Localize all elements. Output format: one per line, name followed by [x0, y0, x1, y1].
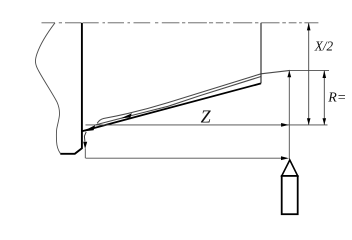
centerline (axis, dash-dot) [42, 22, 319, 24]
return path line to tool [86, 157, 287, 159]
right arrow to tool [281, 156, 289, 160]
retract line from corner [84, 132, 86, 142]
svg-text:R=: R= [327, 90, 346, 105]
up arrow at taper end level [287, 71, 291, 78]
R dimension line [323, 71, 325, 125]
R top arrow [323, 70, 327, 78]
wire: break (wavy) line left [35, 23, 60, 154]
Z dimension right arrow [281, 123, 289, 127]
X/2 bottom arrow [307, 118, 311, 125]
extension line vertical at tool tip [288, 71, 290, 159]
Z dimension line [86, 124, 328, 126]
workpiece right end face line [260, 23, 262, 84]
tool tip (triangle) [282, 160, 298, 176]
svg-text:X/2: X/2 [314, 39, 334, 54]
tool path middle line [96, 77, 262, 125]
feed direction arrow on middle line [121, 113, 132, 118]
X/2 dimension line [308, 23, 310, 124]
R bottom arrow [323, 118, 327, 125]
tool shank [282, 176, 298, 214]
taper surface (thick cut line) [82, 83, 261, 131]
extension line horizontal at taper end level [288, 69, 329, 71]
X/2 top arrow [307, 23, 311, 31]
tool path top line [97, 70, 290, 123]
feed direction arrow at corner (Z left terminator) [83, 125, 96, 131]
down arrow on retract line [83, 142, 87, 149]
svg-text:Z: Z [201, 106, 212, 126]
workpiece outline (end face, chamfer, bottom edge) [60, 23, 82, 154]
